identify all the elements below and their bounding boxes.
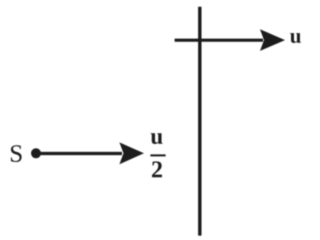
- svg-text:u: u: [150, 124, 163, 149]
- svg-text:S: S: [9, 141, 23, 168]
- wire source arrow shaft: [40, 152, 122, 155]
- wall (vertical line): [198, 7, 201, 236]
- source arrowhead: [119, 142, 143, 164]
- svg-text:2: 2: [151, 157, 163, 183]
- fraction bar: [150, 154, 165, 156]
- top arrowhead: [260, 29, 285, 51]
- svg-text:u: u: [290, 24, 302, 48]
- source dot: [31, 148, 41, 158]
- wire top arrow shaft: [175, 39, 263, 42]
